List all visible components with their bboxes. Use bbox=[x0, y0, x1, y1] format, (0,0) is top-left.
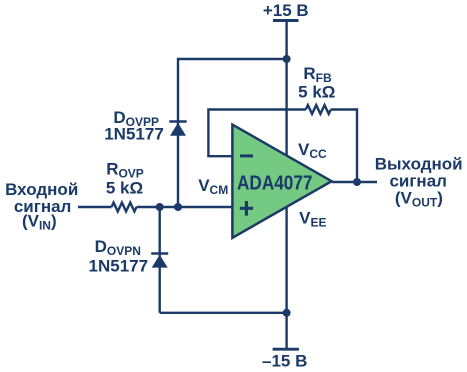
-15V supply rail bar bbox=[273, 348, 299, 351]
wire: D_OVPN branch vertical bbox=[158, 207, 160, 313]
+15V supply rail bar bbox=[273, 19, 299, 22]
diode D_OVPP cathode bar bbox=[169, 120, 186, 123]
wire: input line right of R_OVP to op-amp bbox=[137, 206, 234, 208]
svg-text:Выходной: Выходной bbox=[375, 154, 463, 173]
wire: input line left of R_OVP bbox=[78, 206, 112, 208]
op-amp plus input symbol bbox=[240, 201, 253, 216]
node: top junction bbox=[283, 55, 291, 63]
diode D_OVPN triangle bbox=[152, 255, 168, 268]
node: input/D_OVPP junction bbox=[174, 203, 182, 211]
wire: +15V rail down to top junction bbox=[285, 21, 287, 60]
resistor R_OVP zigzag bbox=[112, 203, 137, 212]
svg-text:5 kΩ: 5 kΩ bbox=[106, 179, 143, 198]
diode D_OVPP triangle bbox=[170, 123, 186, 136]
wire: feedback loop (minus input stub, left leg, top run) bbox=[208, 110, 305, 157]
op-amp U1 ADA4077 triangle bbox=[232, 125, 331, 238]
wire: V_EE pin down to -15V rail bbox=[285, 207, 287, 349]
node: output junction bbox=[353, 178, 361, 186]
svg-text:5 kΩ: 5 kΩ bbox=[298, 82, 335, 101]
diode D_OVPN cathode bar bbox=[151, 252, 168, 255]
wire: R_FB right run and vertical down to output bbox=[331, 110, 357, 183]
node: input/D_OVPN junction bbox=[156, 203, 164, 211]
wire: V_CC pin vertical bbox=[285, 59, 287, 158]
svg-text:1N5177: 1N5177 bbox=[89, 256, 149, 275]
svg-text:ADA4077: ADA4077 bbox=[237, 173, 313, 195]
wire: output stub bbox=[332, 181, 377, 183]
wire: top horizontal and D_OVPP branch vertical bbox=[178, 59, 287, 207]
svg-text:–15 В: –15 В bbox=[262, 351, 307, 370]
op-amp minus input symbol bbox=[240, 154, 253, 157]
svg-text:+15 В: +15 В bbox=[263, 1, 309, 20]
wire: bottom horizontal bbox=[160, 312, 287, 314]
resistor R_FB zigzag bbox=[306, 105, 331, 114]
node: bottom junction bbox=[283, 309, 291, 317]
svg-text:1N5177: 1N5177 bbox=[104, 125, 164, 144]
